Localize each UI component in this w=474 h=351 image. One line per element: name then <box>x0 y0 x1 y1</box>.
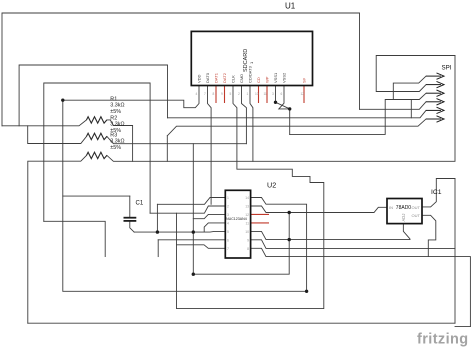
wire C1 top lead <box>129 196 131 217</box>
wire to SPI pin 4 <box>360 102 427 110</box>
svg-text:CD/DAT3: CD/DAT3 <box>248 65 253 83</box>
wire x411.3 drop <box>410 100 412 118</box>
U2 pin numbers right <box>245 196 249 251</box>
label R2 value <box>110 115 124 133</box>
svg-text:3: 3 <box>272 92 274 96</box>
wire R1 left lead rail <box>2 120 87 126</box>
SPI pin 3 arrow <box>426 90 444 96</box>
svg-text:CD: CD <box>256 77 261 83</box>
svg-text:8: 8 <box>213 92 215 96</box>
svg-text:13: 13 <box>245 205 249 209</box>
svg-text:2: 2 <box>238 92 240 96</box>
wire node3 row y274.2 <box>193 213 289 275</box>
svg-text:VDD: VDD <box>197 74 202 83</box>
svg-text:NUC123AN4: NUC123AN4 <box>226 217 247 221</box>
wire pin1 feed U2 <box>157 198 225 205</box>
red unconnected pins U2 <box>251 214 269 223</box>
wire SPI frame top to IC1 out <box>376 56 455 92</box>
wire R3 right lead long y161.3 <box>107 56 455 162</box>
wire bottom frame <box>28 322 455 324</box>
wire R3 left lead to bottom rail <box>28 155 87 323</box>
wire R2 right lead to CMD <box>107 136 247 143</box>
resistor R2 <box>87 133 107 139</box>
U1 red pin labels rotated <box>214 72 307 83</box>
wire VDD rail down left <box>63 100 307 291</box>
capacitor C1 <box>124 218 137 221</box>
svg-text:CLK: CLK <box>231 75 236 83</box>
svg-text:7: 7 <box>204 92 206 96</box>
SPI header arrows <box>426 73 444 122</box>
wire C1 top feed <box>63 195 130 197</box>
wire long y118 to SPI pin 5 <box>168 110 427 117</box>
SPI pin 4 arrow <box>426 99 444 105</box>
svg-text:R1: R1 <box>110 97 117 103</box>
U1 pin CD unconnected <box>258 86 260 104</box>
U1 pin S# unconnected <box>303 86 305 104</box>
SPI pin 1 arrow <box>426 73 444 79</box>
node y274 dot <box>192 273 195 276</box>
svg-text:3: 3 <box>227 213 229 217</box>
wire x157.4 drop <box>156 204 158 232</box>
svg-text:DAT2: DAT2 <box>222 72 227 83</box>
wire OUT2 route <box>422 215 436 256</box>
node VSS dot 1 <box>274 101 277 104</box>
svg-text:OUT: OUT <box>412 213 421 218</box>
red unconnected pins U1 <box>216 86 304 104</box>
svg-text:4: 4 <box>227 222 229 226</box>
U2 pin numbers left <box>227 196 229 251</box>
wire C1 bottom lead bent <box>130 221 134 233</box>
wire y221.3 left net <box>44 221 105 256</box>
U1 pin WP unconnected <box>266 86 268 104</box>
svg-text:2: 2 <box>227 205 229 209</box>
label R1 value <box>110 97 124 115</box>
svg-text:U1: U1 <box>285 2 296 11</box>
resistor R3 <box>87 152 107 158</box>
node U2pin5 dot <box>192 230 195 233</box>
node pin10 dot <box>288 238 291 241</box>
wire U2 pin10 to IC1 ADJ <box>251 231 410 239</box>
svg-text:3.3kΩ: 3.3kΩ <box>110 103 124 109</box>
svg-text:12: 12 <box>301 92 305 96</box>
svg-text:±5%: ±5% <box>110 109 121 115</box>
wire U1 VDD pin down <box>63 86 199 108</box>
svg-text:DAT1: DAT1 <box>214 72 219 83</box>
wire U1 VSS1 down <box>275 86 277 103</box>
sdcard connector U1 box <box>191 31 312 85</box>
wire VSS to SPI pin1 <box>393 76 426 99</box>
wire R1 right lead <box>107 120 133 161</box>
svg-text:S#: S# <box>302 77 307 83</box>
U2 pin 11 unconnected <box>251 222 269 224</box>
U1 pin DAT2 unconnected <box>224 86 226 104</box>
wire U1 VSS2 down <box>279 86 290 135</box>
wire U2 pin4 feed <box>204 223 225 232</box>
svg-text:11: 11 <box>264 92 268 96</box>
wire pin2 feed U2 <box>177 206 226 213</box>
wire U1 DAT0 down <box>208 86 212 205</box>
svg-text:3.3kΩ: 3.3kΩ <box>110 122 124 128</box>
svg-text:6: 6 <box>227 238 229 242</box>
SPI pin 5 arrow <box>426 107 444 113</box>
svg-text:OUT: OUT <box>412 205 421 210</box>
U1 pin DAT1 unconnected <box>215 86 217 104</box>
regulator IC1 box <box>387 199 422 224</box>
wire long y126.7 to SPI pin 6 <box>167 119 426 136</box>
svg-text:6: 6 <box>281 92 283 96</box>
wire node line y232.1 to U2 pin5 <box>134 230 225 233</box>
wire loop y83 <box>44 83 150 221</box>
svg-text:WP: WP <box>265 76 270 83</box>
mcu U2 box <box>225 190 250 258</box>
wire U1 CMD down <box>242 86 247 144</box>
svg-text:U2: U2 <box>267 181 276 190</box>
U1 pin labels rotated <box>197 65 287 83</box>
SPI pin 2 arrow <box>426 81 444 87</box>
svg-text:5: 5 <box>230 92 232 96</box>
resistor R1 <box>87 117 107 123</box>
svg-text:1: 1 <box>227 196 229 200</box>
svg-text:CMD: CMD <box>239 74 244 83</box>
svg-text:R2: R2 <box>110 115 117 121</box>
label R3 value <box>110 132 124 150</box>
wire U2 pin8 right long <box>251 248 471 326</box>
svg-text:VSS1: VSS1 <box>273 72 278 83</box>
node bottom dot <box>305 290 308 293</box>
wire VSS1 to VSS2 junction <box>276 102 290 109</box>
svg-text:IN: IN <box>389 205 393 210</box>
wire R2 left lead rail <box>28 126 87 144</box>
wire right frame lower <box>454 179 456 324</box>
svg-text:11: 11 <box>245 222 249 226</box>
svg-text:ADJ: ADJ <box>401 214 406 222</box>
svg-text:14: 14 <box>245 196 249 200</box>
svg-text:R3: R3 <box>110 132 117 138</box>
wire x167.3 drop <box>166 136 168 162</box>
wire U2 pin7 feed <box>177 245 226 249</box>
wire U2 pin14 right <box>251 198 307 292</box>
svg-text:fritzing: fritzing <box>417 332 469 348</box>
svg-text:12: 12 <box>245 213 249 217</box>
U1 pin numbers <box>196 92 305 96</box>
wire VSS net upper right <box>290 93 426 134</box>
node pin13 dot <box>288 211 291 214</box>
wire x158.2 drop <box>157 240 159 257</box>
svg-text:78AD0: 78AD0 <box>396 205 412 211</box>
svg-text:8: 8 <box>247 247 249 251</box>
wire U2 pin6 feed <box>158 239 225 241</box>
wire U2 pin3 feed <box>193 214 225 218</box>
wire U1 CLK down stair <box>150 86 324 309</box>
wire OUT1 route <box>422 179 455 207</box>
svg-text:1: 1 <box>247 92 249 96</box>
wire x193.3 lower drop <box>192 232 194 274</box>
wire IC1 ADJ lead <box>403 224 410 240</box>
wire top rail from node A to right drop <box>2 13 360 126</box>
svg-text:9: 9 <box>247 238 249 242</box>
wire U1 CD/DAT3 down <box>250 86 253 162</box>
U2 pin 12 unconnected <box>251 213 269 215</box>
wire U2 pin9 right long <box>251 240 455 249</box>
svg-text:IC1: IC1 <box>431 189 442 196</box>
node VDD-left dot <box>61 98 64 101</box>
wire upper loop y65 <box>19 65 167 126</box>
svg-text:3.3kΩ: 3.3kΩ <box>110 139 124 145</box>
svg-text:VSS2: VSS2 <box>282 72 287 83</box>
node VSS dot 2 <box>288 107 291 110</box>
svg-text:9: 9 <box>221 92 223 96</box>
svg-text:10: 10 <box>245 230 249 234</box>
svg-text:10: 10 <box>255 92 259 96</box>
SPI pin 6 arrow <box>426 116 444 122</box>
wire U2 pin13 to IC1 IN <box>251 206 387 213</box>
svg-text:4: 4 <box>196 92 198 96</box>
svg-text:±5%: ±5% <box>110 145 121 151</box>
svg-text:5: 5 <box>227 230 229 234</box>
wire bottom nub <box>455 325 470 327</box>
wire x193.3 drop to node <box>192 144 194 232</box>
svg-text:SPI: SPI <box>442 65 452 72</box>
svg-text:7: 7 <box>227 247 229 251</box>
node C1 dot <box>156 230 159 233</box>
svg-text:DAT0: DAT0 <box>205 72 210 83</box>
svg-text:C1: C1 <box>136 201 144 207</box>
